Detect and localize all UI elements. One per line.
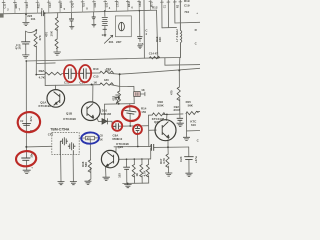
ground pin71 small: [69, 27, 74, 30]
transistor Q1A KTC3198: [47, 90, 65, 108]
svg-text:132: 132: [102, 33, 107, 37]
svg-text:180: 180: [104, 78, 109, 82]
resistor hang R4 vertical: [146, 165, 149, 178]
resistor 10K vertical pin6: [55, 18, 58, 31]
wire hang R3 stubs: [141, 159, 143, 183]
ground G2 under C7A: [22, 55, 29, 58]
svg-text:KTC3198: KTC3198: [39, 104, 52, 108]
wire osc varicap stub x104.9: [104, 11, 106, 37]
svg-text:150: 150: [141, 110, 146, 114]
svg-text:1K: 1K: [100, 138, 103, 141]
svg-text:1N4148: 1N4148: [101, 112, 112, 116]
junction dot line1 bus drop: [157, 57, 159, 59]
wire top supply bus: [0, 10, 157, 14]
ground E4 bottom: [23, 170, 31, 173]
red ellipse E4: [15, 150, 37, 167]
svg-text:10K: 10K: [158, 36, 162, 42]
wire G1 stem: [25, 14, 27, 22]
wire right vertical x148.5: [148, 115, 150, 146]
red ellipse E1: [63, 65, 76, 83]
wire hang R2 stubs: [133, 159, 135, 183]
red ellipse E6: [112, 121, 123, 132]
wire y147.5 right section: [154, 146, 189, 148]
svg-text:10K: 10K: [49, 30, 53, 36]
wire inner T branch: [120, 86, 135, 103]
wire y126 row: [119, 125, 148, 128]
wire y115 horizontal to R18: [149, 114, 184, 121]
wire Q3 base row y159: [119, 158, 151, 160]
diode/arrow detector symbol: [115, 95, 120, 104]
svg-text:Q20: Q20: [118, 145, 124, 149]
svg-text:1K: 1K: [135, 173, 139, 177]
wire osc feed vertical x144: [143, 0, 145, 58]
junction dot x36 y30: [35, 29, 37, 31]
svg-text:24P: 24P: [116, 40, 121, 44]
wire R17 stub and ground: [167, 147, 170, 173]
wire E7 cap down to y147 line: [137, 131, 139, 146]
wire R13 vertical chain right: [178, 58, 181, 114]
svg-text:1K: 1K: [141, 88, 145, 92]
junction dot bus G1: [25, 13, 27, 15]
wire hang C stub: [126, 159, 128, 183]
resistor hang R2 vertical: [132, 165, 135, 178]
svg-text:+: +: [31, 166, 33, 170]
component box inner T2: [134, 92, 141, 97]
svg-text:C71: C71: [116, 2, 120, 7]
junction dot y104: [118, 103, 120, 105]
svg-text:470: 470: [87, 137, 92, 140]
capacitor hang C plates: [123, 167, 130, 169]
oscillator can box: [115, 16, 131, 37]
wire line B y65: [165, 58, 200, 65]
label pin refs rotated row: [3, 1, 154, 8]
svg-text:C81: C81: [138, 1, 142, 6]
svg-text:R9A: R9A: [39, 69, 46, 73]
wire Q2 emitter to D1: [97, 118, 102, 122]
scan artifact mark top left: [0, 13, 4, 17]
ground filter pin2: [70, 182, 77, 185]
ground Q3 emitter: [103, 177, 110, 180]
svg-text:16V: 16V: [18, 44, 22, 49]
junction dot y74 mid: [119, 73, 121, 75]
wire line y146.6 Q3 collector: [114, 146, 151, 152]
wire pin71 cap branch: [70, 12, 72, 26]
svg-text:Q1B: Q1B: [66, 111, 73, 115]
wire series cap link down: [150, 145, 152, 159]
resistor R18 100K horizontal zigzag: [152, 113, 165, 116]
wire bus right drop: [157, 10, 158, 58]
wire Q4 base left: [149, 129, 157, 131]
variable cap arrow: [104, 35, 113, 43]
variable capacitor stack: [102, 18, 113, 44]
capacitor C24 47u plates: [184, 157, 193, 160]
svg-text:560: 560: [84, 162, 88, 167]
svg-text:1K: 1K: [114, 97, 118, 101]
wire top-right box line: [162, 26, 177, 28]
wire y104 horizontal: [105, 103, 135, 106]
wire stub V1 top right: [161, 0, 163, 28]
svg-text:610: 610: [191, 123, 196, 127]
resistor R16 560 vertical under blue: [88, 160, 91, 173]
transistor Q20 KTC3198 (Q3): [101, 150, 118, 167]
svg-text:301: 301: [109, 40, 114, 44]
junction dot bus x44.7: [44, 12, 46, 14]
resistor 1K inner vertical: [117, 91, 120, 104]
wire pin stubs to top edge: [4, 0, 151, 14]
ground G3 pin6 chain: [54, 52, 61, 55]
blue ellipse B1: [81, 132, 99, 144]
capacitor E7 inner plates: [135, 126, 140, 131]
wire bottom bus: [123, 183, 149, 184]
svg-text:4.7K: 4.7K: [39, 75, 46, 79]
wire E5 cap leads: [129, 104, 131, 126]
svg-text:710: 710: [184, 10, 189, 14]
svg-text:L51: L51: [104, 2, 108, 7]
wire pin93 stub down: [93, 12, 95, 24]
wire stub V3 top right: [174, 0, 176, 23]
wire stub tick tops: [2, 1, 182, 2]
svg-text:C10: C10: [117, 137, 122, 141]
capacitor series y147 plates: [151, 144, 153, 151]
svg-text:+47u: +47u: [194, 156, 198, 163]
junction dot line1 left: [25, 60, 27, 62]
junction dot y147 R17: [167, 146, 169, 148]
wire vertical x104.6: [104, 104, 106, 121]
wire C9 to ground: [179, 121, 181, 123]
svg-text:CF1: CF1: [48, 132, 54, 136]
wire R15 tail: [196, 110, 200, 112]
capacitor C9 0047 plates: [177, 118, 183, 120]
junction dot bus x139.4: [139, 10, 141, 12]
resistor R? 100 horizontal zigzag mid: [100, 71, 114, 74]
svg-text:R91: R91: [59, 2, 63, 7]
wire stub V2 top right: [167, 0, 169, 28]
svg-text:C11: C11: [3, 3, 7, 8]
wire Q3 emitter down: [105, 167, 107, 177]
inductor L7 3.3uH: [180, 0, 182, 58]
junction dot base row 2: [134, 158, 136, 160]
ground C9: [177, 123, 184, 126]
svg-text:.0047: .0047: [173, 108, 181, 112]
svg-text:C13: C13: [48, 3, 52, 8]
junction dot y115 Q4: [166, 114, 168, 116]
junction dot R9A left: [35, 74, 37, 76]
filter inner resonators: [60, 137, 75, 154]
svg-text:TBM-C754A: TBM-C754A: [50, 128, 70, 132]
wire osc cap chain x139.8: [138, 11, 141, 42]
capacitor osc chain plates: [137, 37, 142, 39]
resistor second vertical pin6: [55, 39, 58, 49]
svg-text:4.7K: 4.7K: [142, 170, 146, 176]
oscillator coil oval: [119, 22, 125, 31]
junction dot base row 3: [141, 158, 143, 160]
capacitor C13 in series on bus: [42, 11, 44, 16]
wire box right lead: [140, 92, 145, 96]
wire short line2: [37, 62, 55, 65]
svg-text:101: 101: [31, 17, 36, 21]
wire Q4 emitter drop: [167, 140, 169, 148]
svg-text:L7 3.3uH: L7 3.3uH: [175, 29, 179, 42]
resistor R13 vertical right: [177, 87, 180, 100]
wire top-right horizontal: [175, 21, 200, 24]
svg-text:47u: 47u: [29, 116, 33, 121]
wire right edge vertical to ground: [185, 114, 187, 137]
svg-text:R61: R61: [127, 2, 131, 7]
svg-text:470: 470: [45, 32, 49, 37]
capacitor E1 inner electrolytic: [65, 69, 76, 80]
wire D1 cathode to C-E6: [108, 121, 115, 126]
capacitor pin93 plates: [92, 17, 96, 19]
svg-text:+: +: [196, 11, 198, 15]
junction dot E5 bottom: [129, 125, 131, 127]
wire base line y74 with junction: [36, 30, 45, 75]
wire long left vertical through C circles: [25, 61, 27, 170]
wire long vertical x44.7 from bus: [44, 13, 47, 85]
svg-text:47: 47: [155, 51, 159, 55]
capacitor E3 inner plates: [22, 123, 31, 125]
svg-text:100: 100: [105, 68, 110, 72]
junction dot bottom bus gnd: [127, 183, 129, 185]
ground right edge x186.5: [183, 137, 190, 140]
resistor R17 4.7K vertical: [166, 154, 169, 167]
wire cap C7A branch: [25, 31, 27, 54]
svg-text:R11: R11: [37, 3, 41, 8]
wire filter pin 1 down: [60, 154, 62, 181]
resistor hang R3 vertical: [140, 165, 143, 178]
junction dot y85 right: [91, 84, 93, 86]
ground pin93 small: [92, 24, 97, 27]
junction dot base row 1: [126, 158, 128, 160]
wire line y147 left of filter: [26, 145, 52, 148]
capacitor C7A 47u plates: [21, 42, 30, 44]
wire long horizontal line1: [26, 58, 180, 62]
resistor vertical x36.4 upper: [34, 34, 37, 48]
svg-text:470: 470: [169, 90, 173, 95]
wire y74 to right edge: [62, 68, 200, 74]
junction dot long line x179: [178, 69, 180, 71]
transistor Q1B KTC3198 (Q2): [82, 102, 101, 121]
wire blue part right lead: [95, 137, 99, 139]
resistor 47 in line1: [149, 56, 160, 59]
wire C24 vertical: [188, 147, 190, 173]
svg-text:T31: T31: [82, 2, 86, 7]
ground blue chain: [85, 181, 92, 184]
capacitor E2 inner electrolytic: [80, 68, 91, 79]
ground osc chain small: [137, 46, 142, 49]
wire filter pin 2 down: [72, 154, 74, 181]
svg-text:C21: C21: [25, 3, 29, 8]
ground G1 under bus: [22, 22, 29, 25]
red ellipse E2: [79, 65, 92, 83]
wire zigzag2 tail link: [110, 85, 119, 87]
wire filter out to blue part: [79, 137, 85, 139]
wire mid horizontal y85: [45, 85, 100, 103]
red ellipse E7: [133, 124, 142, 134]
ground C24: [185, 173, 192, 176]
wire junction drop to 1K resistor: [119, 74, 121, 91]
component 470 in blue circle: [86, 136, 95, 140]
resistor R15 56K horizontal zigzag: [186, 111, 199, 114]
red ellipse E3: [16, 111, 41, 134]
wire C9 cap stub: [179, 114, 181, 118]
capacitor E4 inner plates: [21, 158, 30, 160]
svg-text:C15: C15: [93, 75, 99, 79]
capacitor pin71 plates: [69, 19, 74, 21]
diode D10 1N4148: [102, 118, 108, 124]
svg-text:C19: C19: [184, 4, 190, 8]
wire hang R4 stubs: [147, 159, 149, 183]
svg-text:4.7K: 4.7K: [162, 157, 166, 164]
svg-text:R19: R19: [184, 0, 190, 3]
junction dot bus x104.8: [104, 10, 106, 12]
svg-text:100K: 100K: [157, 103, 165, 107]
svg-text:C14: C14: [149, 52, 155, 56]
wire blue chain down: [88, 140, 91, 181]
svg-text:103: 103: [118, 173, 122, 178]
svg-text:KTC3198: KTC3198: [63, 117, 76, 121]
svg-text:R81: R81: [14, 3, 18, 8]
capacitor E6 inner plates: [112, 123, 119, 129]
resistor y85 horizontal zigzag: [100, 83, 114, 86]
svg-text:47K: 47K: [38, 34, 42, 40]
svg-text:C24: C24: [179, 156, 183, 162]
wire right edge horizontal y131: [187, 130, 201, 132]
wire arc link: [26, 30, 37, 33]
resistor R9A 4.7K horizontal zigzag: [45, 72, 62, 75]
ground filter pin1: [58, 182, 65, 185]
transistor Q21 KTC3198 (Q4): [155, 120, 176, 141]
filter CF1 TBM-C754A dashed box: [52, 133, 79, 155]
svg-text:56K: 56K: [188, 104, 194, 108]
svg-text:Q21: Q21: [154, 120, 160, 124]
wire pin6 chain: [56, 13, 59, 52]
ground bottom bus: [124, 185, 131, 188]
junction dot E7 bottom line: [137, 146, 139, 148]
svg-text:C61: C61: [93, 2, 97, 7]
junction dot left y147: [25, 146, 27, 148]
svg-text:C15: C15: [138, 42, 144, 46]
svg-text:R10: R10: [93, 67, 99, 71]
ground R17: [165, 173, 172, 176]
capacitor E5 inner plates: [124, 110, 136, 114]
svg-text:R12: R12: [152, 5, 158, 9]
red ellipse E5: [121, 105, 140, 121]
svg-text:C41: C41: [70, 2, 74, 7]
